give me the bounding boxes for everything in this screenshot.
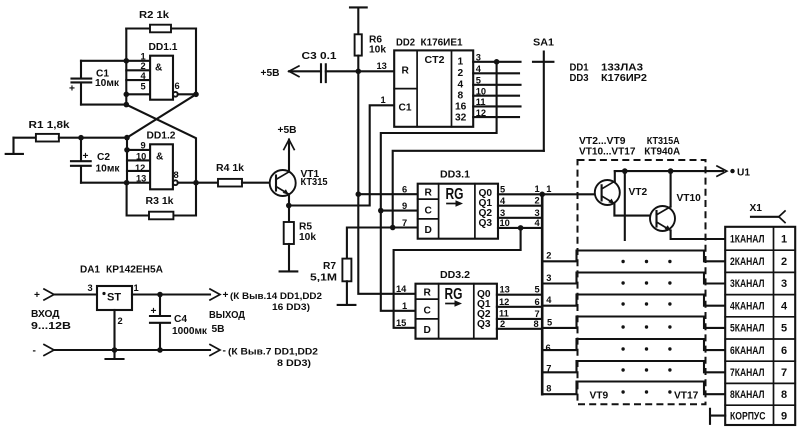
svg-text:4: 4	[141, 71, 147, 81]
svg-text:5: 5	[781, 323, 787, 335]
svg-text:5В: 5В	[212, 324, 225, 335]
svg-text:(К Выв.7 DD1,DD2: (К Выв.7 DD1,DD2	[228, 347, 318, 357]
wire R6 bottom	[357, 56, 359, 72]
wire DD1.2 pin12 stub	[127, 170, 150, 172]
svg-text:6: 6	[175, 81, 180, 91]
svg-text:2: 2	[458, 68, 464, 79]
svg-text:8 DD3): 8 DD3)	[277, 358, 311, 368]
node dot rail drop	[622, 168, 628, 174]
register DD3.2 box	[416, 284, 497, 339]
wire VT10 emitter to X1 channel 1	[671, 230, 726, 239]
counter weight labels 1,2,4,8,16,32	[455, 57, 467, 124]
svg-text:10мк: 10мк	[95, 78, 120, 89]
label VHOD 9...12V	[31, 309, 71, 332]
svg-text:C2: C2	[97, 152, 110, 163]
svg-text:13: 13	[136, 174, 146, 184]
resistor R7	[342, 259, 351, 282]
wire DA1 ground lead	[113, 310, 115, 350]
wire DD1.2 output	[178, 182, 218, 184]
wire DD2 output stub pin10	[473, 95, 519, 97]
output plus terminal	[210, 289, 229, 301]
svg-text:5: 5	[500, 184, 505, 194]
wire D node to R7	[347, 228, 393, 259]
svg-text:3: 3	[781, 278, 787, 290]
bus channel digits left side	[534, 184, 541, 329]
svg-text:10: 10	[476, 87, 486, 97]
svg-text:R1 1,8k: R1 1,8k	[29, 120, 70, 131]
svg-text:13: 13	[500, 285, 510, 295]
wire cross-coupling diagonal from node A to DD1.2 output	[126, 105, 196, 183]
svg-text:X1: X1	[750, 203, 763, 214]
svg-text:R5: R5	[299, 222, 312, 233]
label VT10...VT17 KT940A	[579, 146, 681, 157]
ellipsis dots channel rows	[621, 260, 671, 394]
connector X1 symbol	[750, 203, 786, 223]
svg-text:-: -	[223, 346, 226, 357]
wire DD3.2 Q0 output	[497, 294, 542, 296]
label RG DD3.2	[445, 286, 463, 307]
svg-text:2: 2	[500, 319, 505, 329]
svg-text:C4: C4	[174, 314, 187, 325]
svg-text:(К Выв.14 DD1,DD2: (К Выв.14 DD1,DD2	[230, 291, 322, 301]
wire VT10 collector to rail	[670, 171, 672, 207]
svg-text:7: 7	[402, 218, 407, 228]
svg-text:5,1М: 5,1М	[310, 273, 337, 284]
resistor R2	[150, 25, 171, 33]
wire DD1.1 pin2 stub	[126, 69, 150, 71]
svg-text:8: 8	[534, 319, 539, 329]
svg-text:1: 1	[134, 283, 139, 293]
wire to DD3.2 R input	[358, 194, 415, 294]
node dot R6 bottom	[356, 69, 362, 75]
wire channel 8	[542, 382, 725, 395]
node dot DD1.2 output	[193, 180, 199, 186]
svg-text:&: &	[156, 151, 164, 162]
svg-text:Q3: Q3	[477, 319, 491, 330]
svg-text:11: 11	[476, 97, 486, 107]
wire DD2 output stub pin11	[473, 105, 520, 107]
svg-text:RG: RG	[445, 286, 463, 303]
output arrow U1	[717, 166, 750, 179]
svg-text:6: 6	[781, 345, 787, 357]
wire cross-coupling diagonal from DD1.1 output to DD1.2 input	[127, 94, 196, 137]
wire channel 5	[542, 317, 725, 328]
svg-text:1: 1	[458, 57, 464, 68]
resistor R3	[149, 212, 173, 220]
ground at R5	[280, 270, 298, 272]
wire DD1.2 pin9 stub	[127, 149, 150, 151]
svg-text:4КАНАЛ: 4КАНАЛ	[730, 300, 765, 312]
svg-text:-: -	[33, 346, 36, 357]
svg-text:К176ИР2: К176ИР2	[601, 73, 647, 84]
svg-text:1: 1	[546, 184, 551, 194]
svg-text:+5В: +5В	[278, 125, 297, 136]
wire C3 to DD2 pin13	[326, 70, 394, 72]
node dot R line	[356, 191, 362, 197]
svg-text:14: 14	[396, 284, 407, 294]
transistor VT10	[650, 206, 675, 231]
svg-text:8: 8	[458, 91, 464, 102]
svg-text:R2 1k: R2 1k	[139, 10, 169, 21]
svg-text:6: 6	[402, 185, 407, 195]
svg-text:13: 13	[377, 61, 387, 71]
svg-text:1: 1	[381, 95, 386, 105]
switch SA1	[533, 52, 553, 151]
node dot pin13	[124, 180, 130, 186]
svg-text:2КАНАЛ: 2КАНАЛ	[730, 256, 765, 268]
svg-text:R: R	[424, 288, 432, 299]
ground at DA1	[106, 350, 124, 359]
svg-text:16: 16	[455, 102, 467, 113]
wire R1 to DD1.2 input node	[59, 137, 127, 139]
inversion circle DD1.2 output	[173, 180, 178, 185]
svg-text:+: +	[151, 306, 157, 317]
svg-text:11: 11	[499, 309, 509, 319]
output minus terminal	[210, 345, 226, 357]
wire DD2 output stub pin4	[473, 72, 519, 74]
svg-text:R4 1k: R4 1k	[216, 163, 244, 174]
capacitor C3	[321, 64, 326, 82]
wire DD3.1 C stub	[381, 210, 418, 212]
svg-text:9: 9	[402, 201, 407, 211]
svg-text:D: D	[425, 225, 432, 236]
label R5 10k	[299, 222, 316, 244]
svg-text:6: 6	[535, 297, 540, 307]
wire collector rail	[615, 170, 723, 172]
voltage regulator DA1 box	[97, 286, 132, 310]
svg-text:16 DD3): 16 DD3)	[272, 302, 310, 312]
parts list DD1 133LA3	[570, 63, 644, 74]
wire DD1.1 output	[178, 93, 196, 95]
dashed box transistor array	[578, 160, 706, 404]
capacitor C4	[150, 295, 170, 351]
capacitor C2	[71, 138, 91, 183]
svg-text:Q3: Q3	[479, 218, 493, 229]
label ST	[102, 292, 121, 304]
node dot C4 top	[157, 292, 163, 298]
wire VT2 collector to rail	[614, 171, 616, 181]
svg-text:VT2: VT2	[629, 187, 648, 198]
svg-text:DD1.2: DD1.2	[147, 131, 176, 142]
node dot C2 top	[78, 135, 84, 141]
svg-text:4: 4	[458, 80, 464, 91]
svg-text:12: 12	[135, 163, 145, 173]
wire SA1 to registers D inputs	[393, 151, 544, 228]
capacitor C1	[69, 61, 91, 105]
svg-text:1000мк: 1000мк	[172, 326, 208, 337]
node dot pin5	[124, 92, 130, 98]
svg-text:R7: R7	[323, 261, 336, 272]
power +5V at VT1 collector	[278, 125, 297, 172]
svg-text:5: 5	[141, 82, 146, 92]
svg-text:5: 5	[535, 285, 540, 295]
node dot on pin3 stub	[494, 59, 500, 65]
power rail tick above R6	[350, 7, 367, 34]
labels X1 channel names	[730, 234, 766, 423]
svg-text:2: 2	[118, 316, 123, 326]
svg-text:VT17: VT17	[674, 390, 699, 401]
svg-text:RG: RG	[446, 186, 464, 203]
svg-text:DD1.1: DD1.1	[149, 42, 178, 53]
svg-text:6КАНАЛ: 6КАНАЛ	[730, 345, 765, 357]
svg-text:КР142ЕН5А: КР142ЕН5А	[106, 265, 164, 276]
svg-text:4: 4	[535, 218, 541, 228]
svg-text:R: R	[425, 188, 433, 199]
svg-text:CT2: CT2	[425, 55, 445, 66]
svg-text:DD3: DD3	[570, 73, 589, 84]
wire channel 6	[542, 339, 725, 350]
svg-text:&: &	[155, 62, 163, 73]
wire DD1.1 pin4 stub	[126, 79, 150, 81]
svg-text:32: 32	[455, 113, 467, 124]
svg-text:7КАНАЛ: 7КАНАЛ	[730, 367, 765, 379]
svg-text:5: 5	[547, 317, 552, 327]
svg-text:12: 12	[476, 108, 486, 118]
wire DD1.1 pin5 stub	[126, 93, 150, 95]
svg-text:1: 1	[402, 301, 407, 311]
labels X1 pin numbers	[781, 234, 788, 423]
wire from DD2 pin3 down to registers C inputs	[381, 62, 497, 311]
svg-text:C: C	[424, 306, 432, 317]
inversion circle DD1.1 output	[173, 92, 178, 97]
node dot C line	[378, 208, 384, 214]
transistor VT2	[595, 180, 620, 205]
label to pins 7 DD1,DD2 8 DD3	[228, 347, 318, 369]
node dot VT10 collector at rail	[668, 168, 674, 174]
labels Q0-Q3 DD3.2	[477, 289, 491, 330]
svg-text:5: 5	[476, 76, 481, 86]
label DD2 K176IE1	[396, 38, 463, 49]
label VYHOD 5V	[209, 310, 246, 335]
svg-text:VT10: VT10	[677, 193, 702, 204]
svg-text:+: +	[34, 290, 40, 301]
wire DD3.2 Q1 output	[497, 306, 542, 308]
node dot DA1 ground	[112, 347, 118, 353]
wire R2 top	[126, 27, 196, 29]
wire R1 left	[14, 137, 36, 139]
wire DD3.2 Q2 output	[497, 318, 542, 320]
svg-text:1: 1	[781, 234, 787, 246]
svg-text:7: 7	[535, 309, 540, 319]
svg-text:DD2: DD2	[396, 38, 415, 49]
svg-text:8: 8	[781, 389, 787, 401]
wire R7 to ground	[346, 281, 348, 305]
register DD3.1 box	[418, 184, 498, 239]
svg-text:1: 1	[535, 184, 540, 194]
svg-text:10мк: 10мк	[96, 163, 121, 174]
resistor R6	[355, 34, 362, 55]
transistor VT1	[270, 170, 296, 196]
svg-text:4: 4	[500, 196, 506, 206]
label R6 10k	[369, 35, 386, 56]
wire DA1 output	[132, 293, 210, 295]
node dot C4 bottom	[157, 347, 163, 353]
wire bottom rail	[54, 349, 210, 351]
label VT2...VT9 KT315A	[579, 136, 680, 147]
wire channel 4	[542, 295, 725, 306]
wire feedback DD3.1 Q3 to DD3.2 D input	[394, 228, 521, 328]
svg-text:10k: 10k	[369, 45, 386, 56]
ground at R1	[6, 138, 23, 154]
node dot D line	[390, 225, 396, 231]
svg-text:VT10...VT17: VT10...VT17	[579, 146, 636, 157]
wire VT1 emitter down	[288, 194, 290, 222]
ground at R7	[338, 304, 356, 306]
power +5V arrow at C3	[261, 66, 322, 79]
op-amp gate DD1.2 box	[150, 144, 173, 189]
label VT1 KT315	[301, 169, 328, 188]
chassis wire KORPUS	[710, 409, 725, 424]
node dot bus top	[539, 192, 545, 198]
svg-text:3: 3	[546, 273, 551, 283]
wire DD3.1 Q0 output to channel 1	[498, 193, 602, 195]
wire DD1.2 pin10 stub	[127, 159, 150, 161]
svg-text:КТ940А: КТ940А	[644, 146, 681, 157]
svg-text:КТ315: КТ315	[301, 177, 328, 188]
svg-text:3: 3	[535, 208, 540, 218]
svg-text:+5В: +5В	[261, 68, 280, 79]
label RG DD3.1	[446, 186, 464, 207]
wire rail drop to other channels	[624, 171, 626, 240]
label R7 5,1M	[310, 261, 337, 284]
svg-text:6: 6	[546, 343, 551, 353]
label to pins 14 DD1,DD2 16 DD3	[230, 291, 322, 312]
wire DD3.1 Q3 output	[498, 227, 542, 229]
wire channel 3	[542, 273, 725, 284]
node dot A bottom	[124, 102, 130, 108]
svg-text:8: 8	[546, 384, 551, 394]
svg-text:15: 15	[396, 318, 406, 328]
label C4 1000mk	[172, 314, 208, 337]
node dot A top	[124, 58, 130, 64]
input minus terminal	[33, 345, 55, 357]
svg-text:ST: ST	[107, 292, 121, 304]
parts list DD3 K176IR2	[570, 73, 648, 84]
svg-text:12: 12	[499, 297, 509, 307]
svg-text:+: +	[69, 84, 75, 95]
svg-text:К176ИЕ1: К176ИЕ1	[421, 38, 463, 49]
labels Q0-Q3 DD3.1	[479, 188, 493, 229]
label C1 10mk	[95, 69, 120, 90]
node dot DD1.1 output	[193, 92, 199, 98]
wire R-node vertical from R6 node to register resets	[357, 71, 359, 194]
wire C1 bottom rail	[81, 104, 126, 106]
svg-text:C: C	[425, 206, 433, 217]
wire C2 bottom rail to DD1.2 pin13	[81, 182, 150, 184]
svg-text:3КАНАЛ: 3КАНАЛ	[730, 278, 765, 290]
svg-text:U1: U1	[737, 168, 750, 179]
svg-text:DA1: DA1	[80, 265, 100, 276]
svg-text:C1: C1	[399, 103, 412, 114]
svg-text:DD3.1: DD3.1	[440, 170, 470, 181]
svg-text:КОРПУС: КОРПУС	[730, 411, 766, 423]
wire DD3.1 Q1 output	[498, 205, 542, 207]
wire DD3.1 Q2 output	[498, 217, 542, 219]
svg-text:C3 0.1: C3 0.1	[302, 51, 337, 62]
wire DD3.2 Q3 output	[497, 328, 542, 330]
wire node A vertical	[125, 29, 127, 105]
resistor R4	[218, 179, 242, 187]
wire DD2 output stub pin12	[473, 116, 519, 118]
wire VT2 emitter to VT10 base	[614, 204, 656, 216]
svg-text:10: 10	[500, 218, 510, 228]
op-amp gate DD1.1 box	[150, 56, 173, 100]
svg-text:8КАНАЛ: 8КАНАЛ	[730, 389, 765, 401]
svg-text:7: 7	[781, 367, 787, 379]
svg-text:3: 3	[476, 53, 481, 63]
svg-text:4: 4	[781, 300, 788, 312]
wire R4 to VT1 base	[242, 182, 276, 184]
node dot VT1 emitter	[286, 203, 292, 209]
svg-text:9: 9	[781, 411, 787, 423]
svg-text:10k: 10k	[299, 232, 316, 243]
input plus terminal	[34, 289, 54, 301]
bus channel digits right side	[546, 184, 553, 394]
connector X1 box	[725, 227, 795, 425]
wire DD3.1 D stub	[393, 226, 418, 228]
svg-text:R: R	[402, 66, 410, 77]
svg-text:3: 3	[500, 208, 505, 218]
node dot DD1.2 input	[124, 135, 130, 141]
svg-text:2: 2	[535, 196, 540, 206]
wire DD2 output stub pin3	[473, 61, 520, 63]
label DA1 KR142EN5A	[80, 265, 164, 276]
svg-text:D: D	[424, 325, 431, 336]
counter DD2 box	[394, 50, 473, 126]
svg-text:2: 2	[546, 251, 551, 261]
svg-text:SA1: SA1	[533, 38, 554, 49]
wire channel 7	[542, 361, 725, 372]
svg-text:2: 2	[781, 256, 787, 268]
resistor R1	[36, 134, 59, 142]
svg-text:4: 4	[476, 64, 482, 74]
svg-text:+: +	[223, 290, 229, 301]
node dot DD3.1 Q3	[518, 225, 524, 231]
bus vertical line	[541, 194, 544, 394]
svg-text:1: 1	[141, 52, 146, 62]
wire R5 to ground	[288, 244, 290, 271]
wire channel 2	[542, 251, 725, 262]
svg-text:5КАНАЛ: 5КАНАЛ	[730, 323, 765, 335]
resistor R5	[284, 222, 294, 244]
svg-text:2: 2	[141, 61, 146, 71]
wire R2 right vertical to DD1.1 output node	[195, 29, 197, 95]
wire R3 loop	[127, 183, 196, 216]
svg-text:ВХОД: ВХОД	[31, 309, 60, 320]
svg-text:VT9: VT9	[590, 390, 609, 401]
node dot pin9	[124, 147, 130, 153]
svg-text:3: 3	[88, 283, 93, 293]
wire DD3.1 R stub	[358, 193, 417, 195]
svg-text:8: 8	[174, 170, 179, 180]
svg-text:R3 1k: R3 1k	[146, 196, 174, 207]
svg-text:4: 4	[546, 295, 552, 305]
wire C1 top rail	[81, 60, 126, 62]
svg-text:ВЫХОД: ВЫХОД	[209, 310, 246, 321]
wire DD1.2 input vertical	[126, 138, 128, 183]
svg-text:9...12В: 9...12В	[31, 321, 71, 332]
svg-text:1КАНАЛ: 1КАНАЛ	[730, 234, 765, 246]
svg-text:+: +	[83, 151, 89, 162]
svg-text:9: 9	[141, 141, 146, 151]
svg-text:10: 10	[136, 152, 146, 162]
wire DD2 pin1 stub from VT1 emitter	[289, 105, 394, 205]
wire DD2 output stub pin5	[473, 84, 520, 86]
svg-text:DD3.2: DD3.2	[440, 270, 470, 281]
label C2 10mk	[96, 152, 121, 174]
wire input plus to DA1	[54, 293, 97, 295]
wire DD1.1 pin1 stub	[126, 60, 150, 62]
